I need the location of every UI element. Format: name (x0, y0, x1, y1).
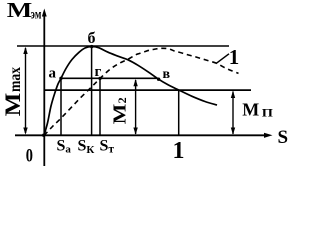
svg-text:1: 1 (173, 138, 185, 164)
Mp level line (44, 89, 251, 91)
node b dot (90, 45, 93, 48)
Sk vertical line (91, 46, 93, 135)
svg-text:М: М (0, 92, 25, 116)
svg-text:в: в (163, 67, 171, 82)
solid torque curve (natural characteristic) (44, 47, 217, 136)
node: origin dot (42, 134, 45, 137)
Mp dimension arrow (231, 91, 235, 135)
svg-text:а: а (49, 66, 57, 82)
svg-text:0: 0 (26, 147, 33, 167)
Sa vertical line (60, 78, 62, 135)
x-axis arrowhead (264, 133, 273, 138)
svg-text:П: П (262, 107, 273, 119)
svg-text:б: б (88, 30, 96, 47)
y-axis M_em (43, 13, 45, 166)
y-axis arrowhead (42, 9, 47, 17)
svg-text:М: М (242, 100, 259, 120)
svg-text:S: S (278, 127, 289, 148)
node a dot (59, 77, 62, 80)
node v dot (157, 78, 160, 81)
S=1 vertical line (178, 90, 180, 135)
St vertical line (99, 78, 101, 135)
Mmax level line (17, 45, 229, 47)
leader line for curve label 1 (216, 54, 229, 64)
dashed curve 1 (artificial characteristic) (44, 48, 239, 135)
a-g-v level line (61, 77, 159, 79)
svg-text:max: max (7, 67, 24, 92)
svg-text:М: М (110, 104, 130, 125)
M2 dimension arrow (133, 79, 137, 135)
svg-text:г: г (95, 64, 102, 80)
svg-text:эм: эм (31, 6, 42, 21)
svg-text:2: 2 (115, 97, 129, 103)
svg-text:1: 1 (229, 45, 240, 69)
x-axis S (15, 134, 267, 136)
Mmax dimension arrow (23, 47, 27, 135)
svg-text:М: М (7, 0, 33, 22)
node g dot (98, 77, 101, 80)
